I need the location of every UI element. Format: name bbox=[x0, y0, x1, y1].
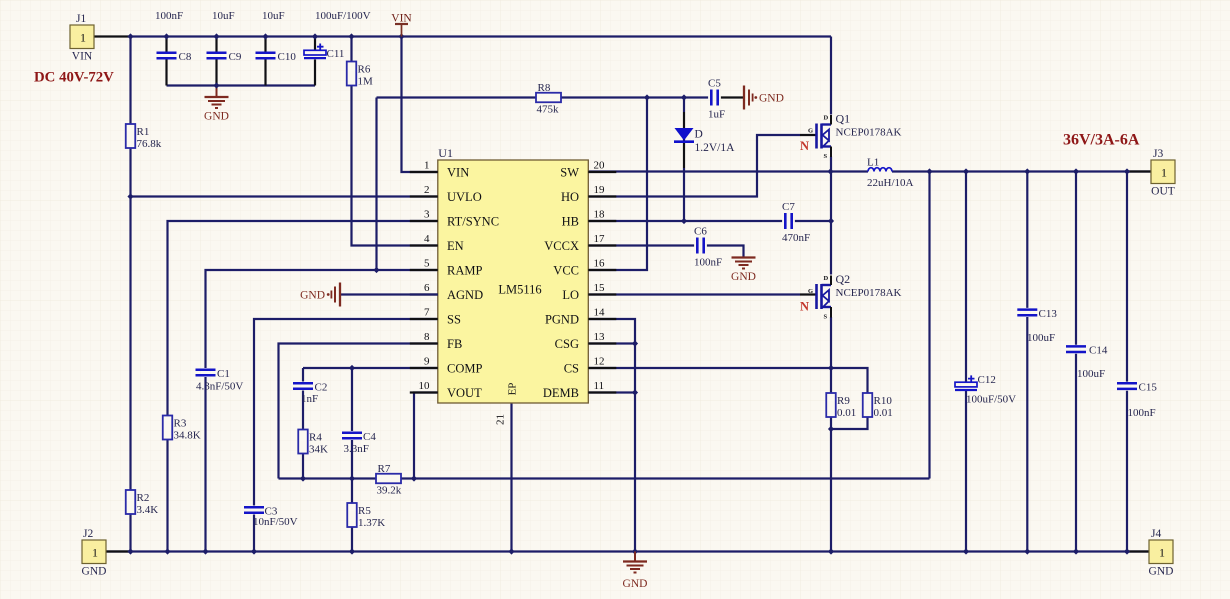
svg-text:100uF/50V: 100uF/50V bbox=[966, 394, 1016, 406]
resistor R5 1.37K bbox=[347, 503, 385, 529]
svg-text:VCCX: VCCX bbox=[544, 239, 579, 253]
svg-text:Q1: Q1 bbox=[836, 112, 851, 126]
svg-text:D: D bbox=[824, 115, 829, 122]
svg-text:10nF/50V: 10nF/50V bbox=[253, 516, 298, 528]
wire: RAMP-R8 feed vertical bbox=[375, 98, 377, 271]
wire: VIN top rail to pin1 feed bbox=[402, 37, 438, 173]
svg-text:C2: C2 bbox=[315, 382, 328, 394]
ground symbol below C6 node bbox=[731, 258, 756, 284]
svg-text:470nF: 470nF bbox=[782, 232, 810, 244]
svg-text:6: 6 bbox=[424, 282, 430, 294]
svg-text:1: 1 bbox=[1159, 546, 1165, 560]
op-amp/IC U1 LM5116 body bbox=[438, 146, 589, 425]
capacitor C15 100nF bbox=[1117, 382, 1157, 419]
resistor R3 34.8K bbox=[163, 416, 201, 442]
capacitor C1 4.3nF/50V bbox=[196, 368, 244, 393]
wire: VIN input top rail bbox=[131, 35, 832, 37]
wire: inductor output rail to J3 bbox=[892, 170, 1151, 172]
U1 right pin names bbox=[543, 165, 579, 399]
svg-text:S: S bbox=[824, 314, 828, 321]
svg-text:34K: 34K bbox=[309, 444, 328, 456]
resistor R2 3.4K bbox=[126, 490, 159, 516]
connector J1 (VIN input) bbox=[70, 13, 94, 63]
U1 right pin numbers 20-11 bbox=[594, 160, 606, 393]
svg-text:4: 4 bbox=[424, 233, 430, 245]
capacitor C12 100uF/50V polarized bbox=[955, 374, 1016, 406]
svg-text:NCEP0178AK: NCEP0178AK bbox=[836, 287, 902, 299]
svg-text:GND: GND bbox=[1149, 566, 1174, 578]
svg-text:GND: GND bbox=[82, 566, 107, 578]
resistor R10 0.01 bbox=[863, 393, 893, 419]
svg-text:S: S bbox=[824, 153, 828, 160]
svg-text:0.01: 0.01 bbox=[874, 407, 893, 419]
junction dots: compensation/feedback row bbox=[300, 365, 417, 482]
svg-text:12: 12 bbox=[594, 356, 605, 368]
ground symbol below bottom rail bbox=[634, 552, 636, 562]
svg-text:SS: SS bbox=[447, 312, 461, 326]
wire: LO pin15 to Q2 gate bbox=[588, 293, 800, 295]
U1 left pin numbers 1-10 bbox=[419, 160, 431, 393]
wire: R6 branch top rail to EN pin4 bbox=[352, 37, 438, 246]
transistor Q1 NCEP0178AK high side bbox=[800, 112, 902, 161]
wire: CS pin12 row to R10 bbox=[588, 368, 867, 393]
wire: switch node vertical Q1 source to Q2 drain bbox=[830, 157, 832, 275]
svg-text:J2: J2 bbox=[83, 528, 93, 540]
svg-text:J3: J3 bbox=[1153, 148, 1163, 160]
svg-text:RT/SYNC: RT/SYNC bbox=[447, 214, 499, 228]
svg-text:R5: R5 bbox=[358, 505, 371, 517]
connector J2 (GND) bbox=[82, 528, 107, 578]
wire: C1 lower branch to GND rail bbox=[204, 377, 206, 552]
junction dots: left branch bbox=[127, 193, 133, 199]
junction dots: bottom GND rail bbox=[127, 548, 1130, 554]
capacitor C7 470nF bootstrap bbox=[782, 201, 810, 244]
power ground symbol right of C5 bbox=[744, 86, 784, 110]
wire: C9 leads bbox=[215, 37, 217, 53]
svg-text:10: 10 bbox=[419, 380, 431, 392]
svg-text:3.3nF: 3.3nF bbox=[344, 443, 369, 455]
wire: HO pin19 to Q1 gate bbox=[588, 135, 800, 197]
svg-text:1.37K: 1.37K bbox=[358, 517, 385, 529]
svg-text:EP: EP bbox=[506, 383, 518, 396]
svg-text:1: 1 bbox=[424, 160, 430, 172]
svg-text:RAMP: RAMP bbox=[447, 263, 482, 277]
svg-text:OUT: OUT bbox=[1151, 186, 1175, 198]
svg-text:3: 3 bbox=[424, 209, 430, 221]
svg-text:3.4K: 3.4K bbox=[137, 504, 159, 516]
capacitor C6 100nF bbox=[694, 226, 722, 269]
transistor Q2 NCEP0178AK low side bbox=[800, 272, 902, 321]
capacitor C11 100uF/100V polarized bbox=[304, 44, 344, 61]
wire: VCCX pin17 to C6 bbox=[588, 244, 694, 246]
svg-text:C9: C9 bbox=[229, 51, 242, 63]
diode D 1.2V/1A bbox=[674, 128, 735, 154]
svg-text:1: 1 bbox=[92, 546, 98, 560]
wire: input cap bottom tie bar bbox=[167, 84, 316, 86]
wire: C12 branch bbox=[965, 172, 967, 382]
svg-text:C8: C8 bbox=[179, 51, 192, 63]
U1 left pin stubs bbox=[410, 172, 438, 393]
svg-text:4.3nF/50V: 4.3nF/50V bbox=[196, 381, 243, 393]
wire: C6 to ground stub bbox=[707, 246, 744, 258]
capacitor C4 3.3nF bbox=[342, 431, 376, 455]
wire: C9 ground stem bbox=[216, 86, 218, 97]
capacitor C8 100nF bbox=[157, 51, 192, 63]
svg-text:C15: C15 bbox=[1139, 382, 1158, 394]
capacitor C3 10nF/50V bbox=[244, 506, 298, 529]
svg-text:100uF: 100uF bbox=[1027, 332, 1055, 344]
wire: VOUT rail riser bbox=[928, 172, 930, 479]
wire: C14 branch bbox=[1075, 172, 1077, 345]
svg-text:14: 14 bbox=[594, 307, 606, 319]
svg-text:1uF: 1uF bbox=[708, 109, 725, 121]
svg-text:C10: C10 bbox=[278, 51, 297, 63]
svg-text:100nF: 100nF bbox=[155, 10, 183, 22]
svg-text:19: 19 bbox=[594, 184, 606, 196]
svg-text:1nF: 1nF bbox=[301, 393, 318, 405]
svg-text:D: D bbox=[695, 129, 703, 141]
svg-text:C4: C4 bbox=[363, 431, 376, 443]
svg-text:GND: GND bbox=[300, 290, 325, 302]
connector J4 (GND) bbox=[1149, 528, 1174, 578]
wire: DEMB pin11 stub bbox=[588, 391, 635, 393]
power port VIN at top bbox=[391, 13, 412, 37]
svg-text:1.2V/1A: 1.2V/1A bbox=[695, 142, 736, 154]
svg-text:VIN: VIN bbox=[72, 51, 93, 63]
wire: C13 branch bbox=[1026, 172, 1028, 308]
wire: R9 lower lead to GND rail bbox=[830, 417, 832, 552]
svg-text:20: 20 bbox=[594, 160, 606, 172]
svg-text:NCEP0178AK: NCEP0178AK bbox=[836, 127, 902, 139]
svg-text:G: G bbox=[808, 288, 813, 295]
svg-text:15: 15 bbox=[594, 282, 606, 294]
svg-text:39.2k: 39.2k bbox=[377, 485, 402, 497]
svg-text:C12: C12 bbox=[978, 374, 996, 386]
svg-text:100nF: 100nF bbox=[1128, 407, 1156, 419]
svg-text:100uF: 100uF bbox=[1077, 368, 1105, 380]
resistor R9 0.01 bbox=[826, 393, 856, 419]
svg-text:N: N bbox=[800, 300, 809, 314]
svg-text:1: 1 bbox=[1161, 166, 1167, 180]
svg-text:COMP: COMP bbox=[447, 361, 482, 375]
svg-text:10uF: 10uF bbox=[262, 10, 285, 22]
wire: RT/SYNC pin3 net to R3 bbox=[168, 221, 438, 552]
svg-text:36V/3A-6A: 36V/3A-6A bbox=[1063, 132, 1140, 149]
wire: UVLO pin2 net bbox=[131, 195, 438, 197]
junction dots: VIN top rail bbox=[127, 33, 404, 39]
wire: C4/R5 compensation branch bbox=[351, 368, 353, 431]
svg-text:D: D bbox=[824, 275, 829, 282]
svg-text:EN: EN bbox=[447, 239, 464, 253]
svg-text:18: 18 bbox=[594, 209, 606, 221]
U1 left pin names bbox=[447, 165, 499, 399]
svg-text:C6: C6 bbox=[694, 226, 707, 238]
svg-text:R7: R7 bbox=[378, 463, 391, 475]
wire: VOUT pin10 sense stub bbox=[414, 393, 438, 479]
svg-text:GND: GND bbox=[204, 111, 229, 123]
junction dots: R8/VCC row bbox=[373, 94, 687, 273]
junction dots: switch node and output rail bbox=[827, 168, 1130, 174]
svg-text:R8: R8 bbox=[538, 82, 551, 94]
svg-text:C1: C1 bbox=[217, 368, 230, 380]
svg-text:Q2: Q2 bbox=[836, 272, 851, 286]
svg-text:VIN: VIN bbox=[447, 165, 469, 179]
resistor R8 475k bbox=[536, 82, 561, 116]
svg-text:1M: 1M bbox=[358, 76, 374, 88]
svg-text:C13: C13 bbox=[1039, 308, 1058, 320]
wire: VCC pin16 riser bbox=[588, 98, 647, 271]
svg-text:C14: C14 bbox=[1089, 345, 1108, 357]
svg-text:C7: C7 bbox=[782, 201, 795, 213]
wire: Q1 drain from top rail bbox=[830, 37, 832, 115]
svg-text:CSG: CSG bbox=[555, 337, 579, 351]
U1 right pin stubs bbox=[588, 172, 616, 393]
capacitor C2 1nF bbox=[293, 382, 327, 406]
wire: C2/R4 compensation branch bbox=[302, 368, 304, 382]
capacitor C13 100uF bbox=[1017, 308, 1057, 344]
capacitor C14 100uF bbox=[1066, 345, 1108, 380]
svg-text:SW: SW bbox=[560, 165, 579, 179]
wire: C5 to ground stub bbox=[721, 96, 744, 98]
svg-text:100nF: 100nF bbox=[694, 257, 722, 269]
svg-text:DEMB: DEMB bbox=[543, 386, 579, 400]
svg-text:C5: C5 bbox=[708, 78, 721, 90]
capacitor C10 10uF bbox=[256, 51, 297, 63]
svg-text:LM5116: LM5116 bbox=[498, 283, 541, 297]
svg-text:21: 21 bbox=[495, 414, 507, 425]
capacitor C9 10uF bbox=[207, 51, 242, 63]
svg-text:17: 17 bbox=[594, 233, 606, 245]
svg-text:8: 8 bbox=[424, 331, 430, 343]
wire: Q2 source to current sense bbox=[830, 317, 832, 393]
wire: RAMP pin5 net to C1 branch bbox=[206, 270, 438, 368]
svg-text:R2: R2 bbox=[137, 492, 150, 504]
svg-text:7: 7 bbox=[424, 307, 430, 319]
svg-text:GND: GND bbox=[759, 93, 784, 105]
svg-text:VIN: VIN bbox=[391, 13, 412, 25]
wire: feedback divider row (FB to VOUT rail riser) bbox=[279, 477, 930, 479]
svg-text:FB: FB bbox=[447, 337, 462, 351]
svg-text:10uF: 10uF bbox=[212, 10, 235, 22]
junction dots: current sense bbox=[828, 365, 834, 432]
svg-text:R10: R10 bbox=[874, 395, 893, 407]
svg-text:R1: R1 bbox=[137, 126, 150, 138]
resistor R4 34K bbox=[298, 430, 328, 456]
svg-text:34.8K: 34.8K bbox=[174, 430, 201, 442]
svg-text:C11: C11 bbox=[327, 48, 345, 60]
wire: SS pin7 net to C3 branch bbox=[254, 319, 438, 506]
wire: C8 leads bbox=[165, 37, 167, 53]
wire: J3 pin stub bbox=[1127, 170, 1151, 172]
svg-text:0.01: 0.01 bbox=[837, 407, 856, 419]
wire: C3 lower branch to GND rail bbox=[253, 515, 255, 552]
resistor R7 39.2k bbox=[376, 463, 402, 497]
wire: R8 row (RAMP to VCC/C5) bbox=[377, 96, 709, 98]
wire: J4 pin stub bbox=[1127, 550, 1151, 552]
svg-text:AGND: AGND bbox=[447, 288, 483, 302]
wire: C10 leads bbox=[264, 37, 266, 53]
svg-text:2: 2 bbox=[424, 184, 430, 196]
power ground AGND at pin 6 bbox=[340, 293, 438, 295]
svg-text:16: 16 bbox=[594, 258, 606, 270]
wire: C15 branch bbox=[1126, 172, 1128, 382]
svg-text:1: 1 bbox=[80, 31, 86, 45]
connector J3 (OUT) bbox=[1151, 148, 1175, 198]
resistor R6 1M bbox=[347, 62, 373, 88]
svg-text:R3: R3 bbox=[174, 418, 187, 430]
wire: CSG pin13 stub bbox=[588, 342, 635, 344]
svg-text:VCC: VCC bbox=[553, 263, 579, 277]
svg-text:11: 11 bbox=[594, 380, 605, 392]
wire: J2 pin stub bbox=[106, 550, 131, 552]
wire: C11 leads bbox=[314, 37, 316, 51]
junction dots: input cap bottom bar bbox=[213, 82, 219, 88]
wire: FB pin8 net down to divider row bbox=[279, 344, 438, 479]
svg-text:PGND: PGND bbox=[545, 312, 579, 326]
wire: HB pin18 row to bootstrap C7 and switch node bbox=[588, 220, 782, 222]
svg-text:5: 5 bbox=[424, 258, 430, 270]
svg-text:9: 9 bbox=[424, 356, 430, 368]
svg-text:L1: L1 bbox=[867, 157, 879, 169]
svg-text:UVLO: UVLO bbox=[447, 190, 482, 204]
svg-text:GND: GND bbox=[623, 578, 648, 590]
wire: left vertical R1/R2 branch (J1 to GND rail) bbox=[129, 37, 131, 552]
ground symbol below C9 bbox=[204, 97, 229, 123]
wire: J1 pin stub bbox=[94, 35, 131, 37]
svg-text:R9: R9 bbox=[837, 395, 850, 407]
wire: diode branch vertical (R8 row to HB row) bbox=[683, 98, 685, 113]
svg-text:VOUT: VOUT bbox=[447, 386, 482, 400]
svg-text:DC 40V-72V: DC 40V-72V bbox=[34, 70, 114, 86]
svg-text:HB: HB bbox=[562, 214, 579, 228]
svg-text:CS: CS bbox=[564, 361, 579, 375]
wire: COMP pin9 net bbox=[303, 367, 438, 369]
svg-text:G: G bbox=[808, 128, 813, 135]
capacitor C5 1uF bbox=[708, 78, 725, 121]
svg-text:R6: R6 bbox=[358, 64, 371, 76]
wire: PGND/CSG/DEMB vertical to GND rail bbox=[588, 319, 635, 552]
svg-text:J1: J1 bbox=[76, 13, 86, 25]
junction dots: HB row bbox=[681, 218, 834, 224]
wire: EP pad pin21 to GND rail bbox=[510, 403, 512, 552]
junction dots: PGND vertical bbox=[632, 340, 638, 395]
inductor L1 22uH/10A bbox=[867, 157, 914, 190]
svg-text:475k: 475k bbox=[537, 104, 560, 116]
resistor R1 76.8k bbox=[126, 124, 162, 150]
svg-text:LO: LO bbox=[562, 288, 579, 302]
svg-text:R4: R4 bbox=[309, 432, 322, 444]
svg-text:GND: GND bbox=[731, 271, 756, 283]
svg-text:13: 13 bbox=[594, 331, 606, 343]
svg-text:22uH/10A: 22uH/10A bbox=[867, 177, 914, 189]
svg-text:N: N bbox=[800, 139, 809, 153]
svg-text:HO: HO bbox=[561, 190, 579, 204]
wire: SW pin20 row to switch node bbox=[588, 170, 868, 172]
svg-text:76.8k: 76.8k bbox=[137, 138, 162, 150]
svg-text:100uF/100V: 100uF/100V bbox=[315, 10, 371, 22]
svg-text:U1: U1 bbox=[438, 146, 453, 160]
wire: bottom GND rail bbox=[106, 550, 1151, 552]
svg-text:J4: J4 bbox=[1151, 528, 1161, 540]
wire: R9/R10 bottom tie bar bbox=[831, 417, 868, 429]
